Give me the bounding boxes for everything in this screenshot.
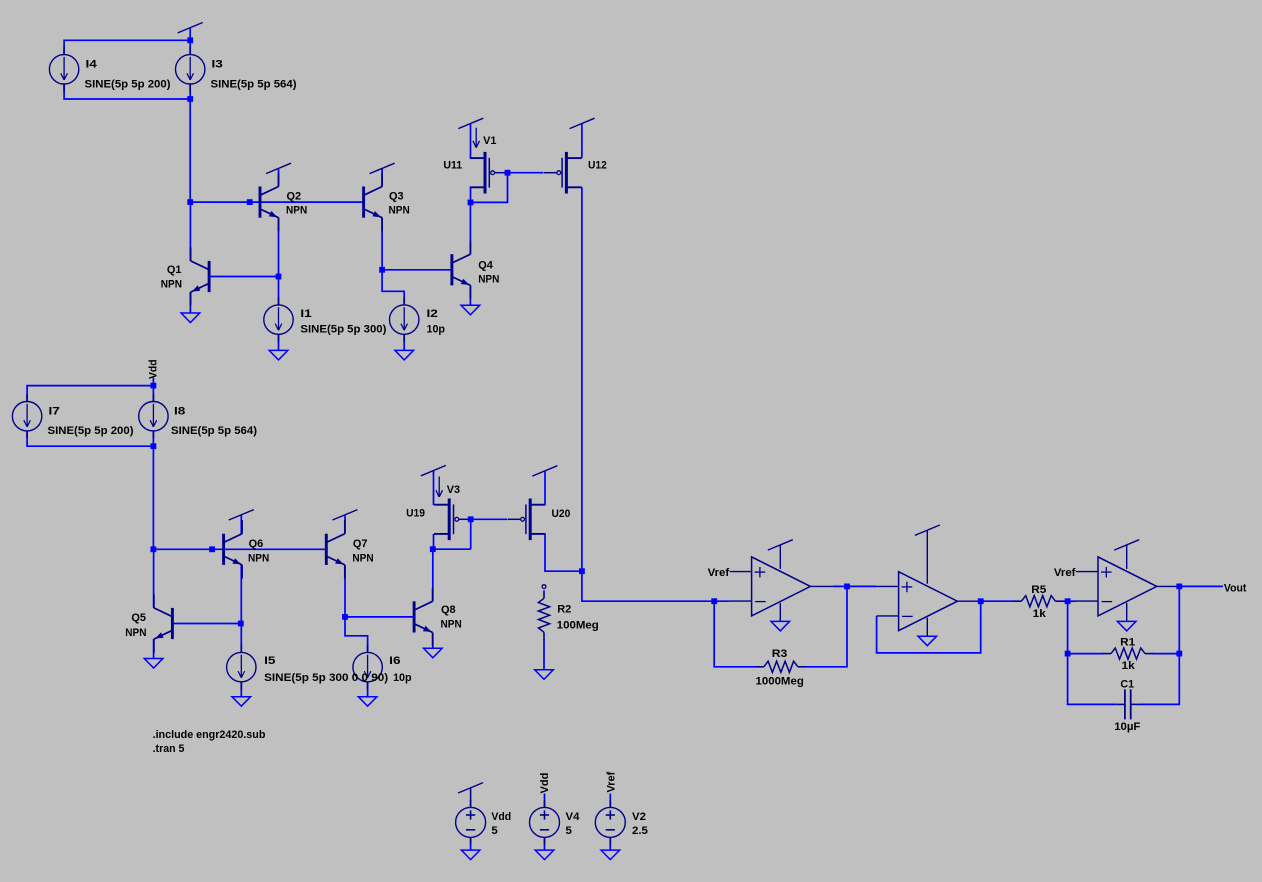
svg-text:5: 5	[491, 825, 498, 837]
svg-text:NPN: NPN	[441, 619, 462, 631]
svg-text:NPN: NPN	[125, 627, 146, 639]
svg-text:U11: U11	[443, 159, 462, 171]
svg-text:R3: R3	[772, 648, 788, 660]
svg-text:I2: I2	[427, 308, 438, 320]
svg-text:.include engr2420.sub: .include engr2420.sub	[153, 729, 266, 741]
svg-text:Vdd: Vdd	[539, 773, 551, 794]
svg-text:NPN: NPN	[352, 553, 373, 565]
svg-text:R1: R1	[1120, 637, 1136, 649]
svg-text:Q1: Q1	[167, 264, 182, 276]
svg-text:10p: 10p	[393, 672, 412, 684]
svg-text:Vout: Vout	[1224, 582, 1247, 594]
svg-text:1k: 1k	[1122, 660, 1136, 672]
svg-text:V3: V3	[447, 484, 460, 496]
svg-text:SINE(5p 5p 564): SINE(5p 5p 564)	[211, 78, 297, 90]
svg-text:Vdd: Vdd	[148, 359, 160, 379]
svg-text:I3: I3	[212, 59, 223, 71]
svg-text:Vref: Vref	[708, 567, 730, 579]
svg-text:NPN: NPN	[478, 274, 499, 286]
svg-text:Q2: Q2	[287, 191, 302, 203]
svg-text:NPN: NPN	[248, 553, 269, 565]
svg-text:10µF: 10µF	[1114, 721, 1140, 733]
svg-text:Vref: Vref	[605, 772, 617, 793]
svg-text:V1: V1	[483, 135, 497, 147]
svg-text:NPN: NPN	[286, 205, 307, 217]
svg-text:Vdd: Vdd	[491, 811, 511, 823]
svg-text:U12: U12	[588, 159, 607, 171]
svg-text:Q3: Q3	[389, 191, 404, 203]
svg-text:U20: U20	[552, 508, 571, 520]
svg-text:5: 5	[566, 825, 573, 837]
svg-text:U19: U19	[406, 508, 425, 520]
svg-text:I4: I4	[86, 59, 98, 71]
svg-text:I1: I1	[300, 308, 312, 320]
svg-text:SINE(5p 5p 200): SINE(5p 5p 200)	[85, 78, 171, 90]
svg-text:I5: I5	[264, 655, 276, 667]
svg-text:NPN: NPN	[161, 279, 182, 291]
svg-text:NPN: NPN	[389, 205, 410, 217]
svg-text:SINE(5p 5p 300): SINE(5p 5p 300)	[300, 323, 386, 335]
svg-text:C1: C1	[1120, 678, 1134, 690]
svg-text:2.5: 2.5	[632, 825, 649, 837]
svg-text:R5: R5	[1031, 584, 1047, 596]
svg-text:Q8: Q8	[441, 604, 456, 616]
svg-text:1k: 1k	[1033, 608, 1047, 620]
svg-text:V2: V2	[632, 811, 646, 823]
svg-text:SINE(5p 5p 200): SINE(5p 5p 200)	[48, 425, 134, 437]
svg-text:Q6: Q6	[249, 538, 264, 550]
svg-text:Q4: Q4	[478, 260, 493, 272]
svg-text:SINE(5p 5p 300 0 0 90): SINE(5p 5p 300 0 0 90)	[264, 672, 388, 684]
svg-text:V4: V4	[566, 811, 581, 823]
svg-text:R2: R2	[557, 604, 571, 616]
svg-text:Vref: Vref	[1054, 567, 1076, 579]
svg-text:I6: I6	[389, 655, 400, 667]
svg-text:.tran 5: .tran 5	[153, 743, 185, 755]
svg-text:SINE(5p 5p 564): SINE(5p 5p 564)	[171, 425, 257, 437]
svg-text:1000Meg: 1000Meg	[756, 675, 804, 687]
svg-text:I8: I8	[174, 405, 185, 417]
svg-text:100Meg: 100Meg	[557, 619, 599, 631]
svg-text:Q5: Q5	[131, 612, 146, 624]
svg-text:I7: I7	[49, 405, 60, 417]
svg-text:10p: 10p	[427, 323, 446, 335]
svg-text:Q7: Q7	[353, 538, 368, 550]
